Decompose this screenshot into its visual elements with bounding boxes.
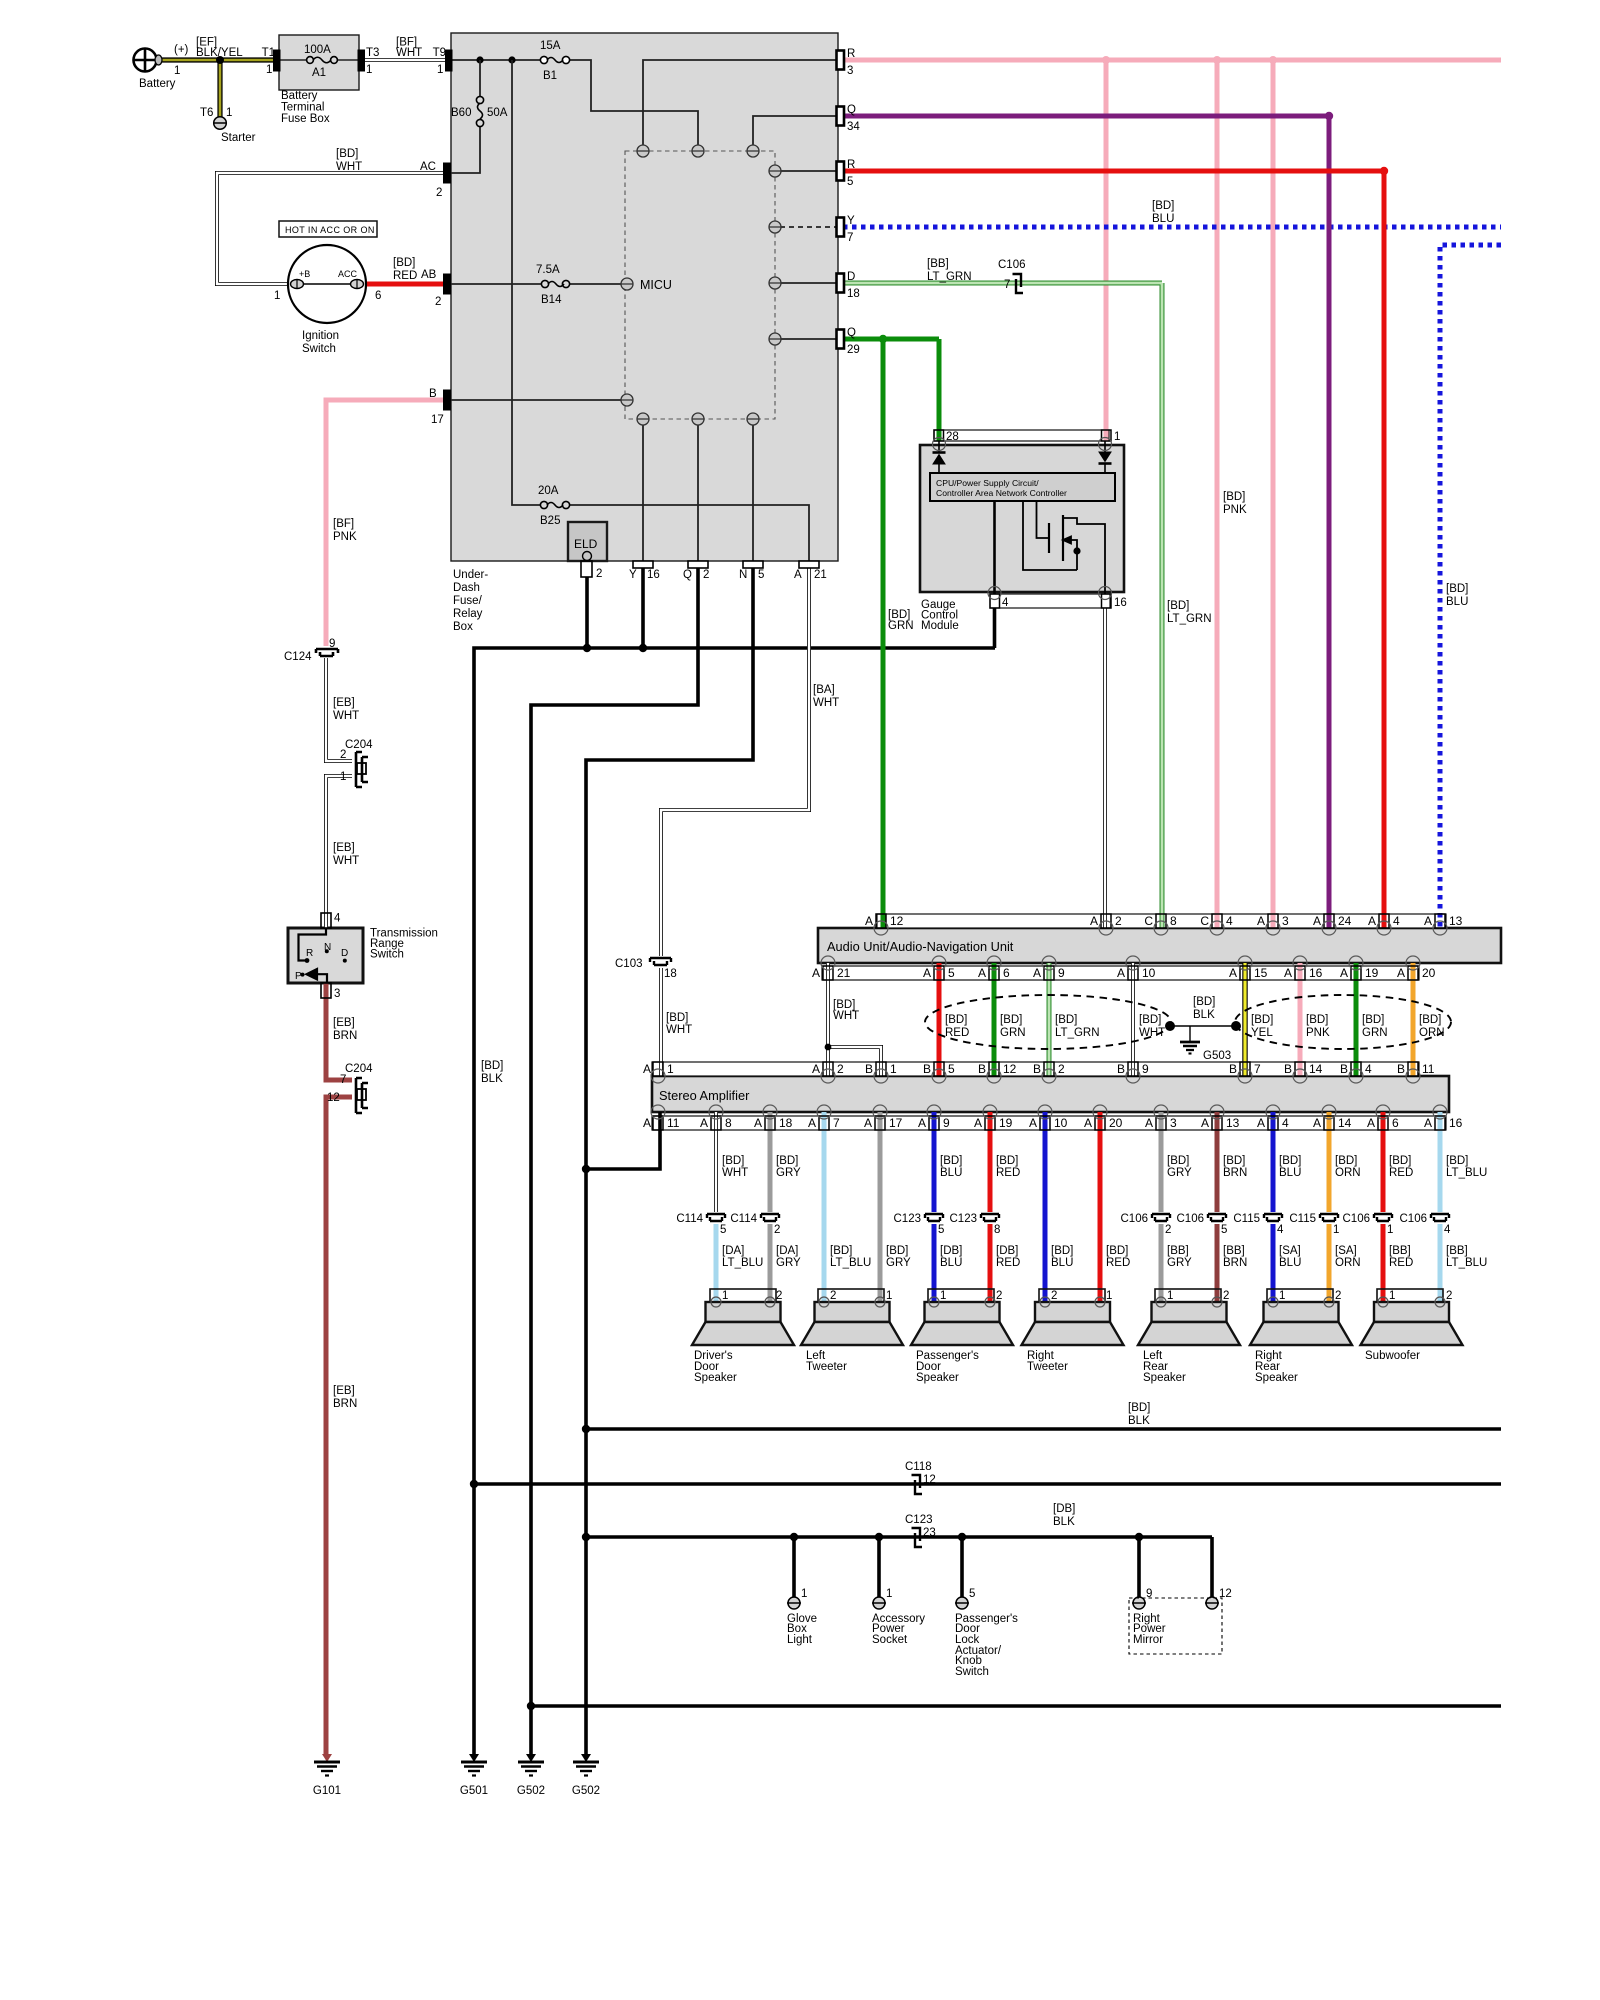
svg-text:B: B — [865, 1062, 873, 1076]
junction white branch — [825, 1044, 832, 1051]
fusebox internal: B25 20A branch down — [512, 60, 541, 505]
svg-text:9: 9 — [1146, 1588, 1152, 1600]
svg-text:T9: T9 — [433, 47, 446, 59]
connector C204 lower — [356, 1078, 368, 1113]
svg-text:5: 5 — [948, 1062, 955, 1076]
connector Q2 box — [688, 561, 708, 568]
svg-text:Stereo Amplifier: Stereo Amplifier — [659, 1088, 750, 1103]
svg-text:C106: C106 — [1177, 1213, 1205, 1225]
accessory power socket pin — [872, 1597, 886, 1609]
svg-text:10: 10 — [1054, 1116, 1068, 1130]
svg-text:ACC: ACC — [338, 269, 358, 279]
svg-text:4: 4 — [1226, 914, 1233, 928]
svg-text:G503: G503 — [1203, 1050, 1231, 1062]
fusebox internal: MICU pin3 up and right to Q34 — [753, 116, 838, 146]
junction bus4 — [527, 1702, 535, 1710]
svg-text:[BA]: [BA] — [813, 684, 835, 696]
junction ELD rail — [583, 644, 591, 652]
svg-text:ORN: ORN — [1419, 1027, 1445, 1039]
svg-text:[BD]: [BD] — [1223, 491, 1245, 503]
wire C106 to subwoofer [BB] LT_BLU — [1438, 1224, 1443, 1302]
svg-text:[BD]: [BD] — [722, 1155, 744, 1167]
svg-text:19: 19 — [1365, 966, 1379, 980]
svg-text:Socket: Socket — [872, 1634, 908, 1646]
svg-text:C106: C106 — [1121, 1213, 1149, 1225]
wire blue dotted stepped to audio A13 — [1440, 245, 1501, 928]
svg-text:Audio Unit/Audio-Navigation Un: Audio Unit/Audio-Navigation Unit — [827, 939, 1014, 954]
svg-text:Light: Light — [787, 1634, 813, 1646]
inline connector C115-4 — [1264, 1214, 1282, 1221]
svg-text:BLK: BLK — [1128, 1415, 1150, 1427]
svg-text:A: A — [794, 569, 802, 581]
passenger's door speaker — [911, 1289, 1013, 1345]
svg-text:BLK: BLK — [1053, 1516, 1075, 1528]
svg-text:4: 4 — [1393, 914, 1400, 928]
svg-text:9: 9 — [943, 1116, 950, 1130]
wire bottom bus 2 — [474, 1482, 1501, 1486]
svg-text:A: A — [978, 966, 986, 980]
connector Y16 box — [633, 561, 653, 568]
svg-text:Module: Module — [921, 620, 959, 632]
svg-text:GRY: GRY — [1167, 1257, 1192, 1269]
wire gauge pin4 black to y648 rail — [993, 608, 997, 648]
svg-text:B: B — [429, 388, 437, 400]
subwoofer — [1361, 1289, 1463, 1345]
svg-text:21: 21 — [814, 569, 827, 581]
wire drop glove box light — [792, 1537, 796, 1597]
svg-text:B1: B1 — [543, 70, 557, 82]
svg-text:[EB]: [EB] — [333, 1385, 355, 1397]
connector T3 — [358, 50, 365, 71]
svg-text:12: 12 — [890, 914, 904, 928]
svg-text:BRN: BRN — [333, 1030, 357, 1042]
wire amp A16 [BD] LT_BLU to C106 — [1438, 1112, 1443, 1212]
svg-text:5: 5 — [758, 569, 764, 581]
wire C124 to C204 [EB] WHT — [326, 658, 352, 761]
svg-text:N: N — [324, 942, 331, 953]
svg-text:C114: C114 — [730, 1213, 757, 1225]
wire drop mirror pin12 — [1210, 1537, 1214, 1597]
svg-text:2: 2 — [776, 1290, 782, 1302]
fusebox internal: MICU bottom pins down to Y16 Q2 N5 — [643, 425, 753, 561]
wire T6 branch to starter — [217, 60, 222, 117]
svg-text:16: 16 — [1114, 597, 1127, 609]
svg-text:B: B — [1033, 1062, 1041, 1076]
svg-text:12: 12 — [327, 1092, 340, 1104]
svg-text:WHT: WHT — [1139, 1027, 1165, 1039]
svg-text:A: A — [643, 1116, 651, 1130]
svg-text:14: 14 — [1338, 1116, 1352, 1130]
svg-text:[DA]: [DA] — [722, 1245, 744, 1257]
shield junction right — [1231, 1021, 1241, 1031]
ground G502 left — [518, 1754, 544, 1776]
connector Y7 — [837, 218, 845, 237]
svg-text:B: B — [978, 1062, 986, 1076]
svg-text:23: 23 — [923, 1527, 936, 1539]
connector C123-23 — [912, 1528, 923, 1547]
svg-text:A: A — [974, 1116, 982, 1130]
junction pink taps — [1102, 56, 1110, 64]
svg-text:LT_BLU: LT_BLU — [1446, 1257, 1487, 1269]
svg-text:B25: B25 — [540, 515, 560, 527]
svg-text:A: A — [864, 1116, 872, 1130]
svg-text:A: A — [1340, 966, 1348, 980]
wire audio A20 to amp B11 [BD] ORN — [1411, 963, 1416, 1076]
svg-text:1: 1 — [667, 1062, 674, 1076]
svg-text:5: 5 — [1221, 1224, 1227, 1236]
svg-text:A: A — [1367, 1116, 1375, 1130]
wire A21 white [BA] WHT — [661, 568, 809, 956]
fuse B60 50A vertical — [476, 96, 483, 126]
right tweeter — [1022, 1289, 1124, 1345]
svg-text:Speaker: Speaker — [916, 1372, 959, 1384]
svg-text:Fuse/: Fuse/ — [453, 595, 483, 607]
ground G502 right — [573, 1754, 599, 1776]
svg-text:4: 4 — [1002, 597, 1009, 609]
svg-text:20: 20 — [1109, 1116, 1123, 1130]
connector C204 upper — [356, 752, 368, 787]
svg-text:GRY: GRY — [886, 1257, 911, 1269]
svg-text:A: A — [1313, 1116, 1321, 1130]
svg-text:C: C — [1144, 914, 1153, 928]
svg-text:[DB]: [DB] — [1053, 1503, 1075, 1515]
labels amp bottom pins — [643, 1116, 1463, 1130]
wire black rail y648 ELD Y16 to G501 drop — [474, 648, 995, 1754]
connector C118-12 — [912, 1475, 923, 1494]
svg-text:2: 2 — [1058, 1062, 1065, 1076]
ELD box — [568, 522, 607, 561]
battery positive symbol — [134, 49, 163, 72]
svg-text:Subwoofer: Subwoofer — [1365, 1350, 1420, 1362]
svg-text:RED: RED — [1389, 1257, 1413, 1269]
wire TRS pin3 to C204 [EB] BRN — [326, 983, 352, 1080]
svg-text:[BD]: [BD] — [1446, 583, 1468, 595]
wire Y16 drop — [641, 568, 645, 648]
svg-text:1: 1 — [886, 1588, 892, 1600]
svg-text:13: 13 — [1449, 914, 1463, 928]
svg-text:A: A — [812, 1062, 820, 1076]
ground G503 — [1180, 1042, 1200, 1054]
audio unit pin cells bottom — [823, 966, 1418, 980]
junction green — [879, 335, 887, 343]
svg-text:Switch: Switch — [302, 343, 336, 355]
gauge bottom pin strip — [990, 594, 1110, 608]
svg-text:2: 2 — [596, 568, 602, 580]
svg-text:[BD]: [BD] — [830, 1245, 852, 1257]
svg-text:+B: +B — [299, 269, 310, 279]
wire T3 to T9 [BF] WHT — [364, 58, 446, 62]
svg-text:1: 1 — [1114, 431, 1120, 443]
junction bus3 — [582, 1533, 590, 1541]
svg-text:BLU: BLU — [1152, 213, 1174, 225]
connector N5 box — [743, 561, 763, 568]
svg-text:GRY: GRY — [776, 1167, 801, 1179]
svg-text:BRN: BRN — [1223, 1257, 1247, 1269]
svg-text:WHT: WHT — [396, 47, 422, 59]
svg-text:T1: T1 — [262, 47, 275, 59]
wire amp A14 [BD] ORN to C115 — [1327, 1112, 1332, 1212]
labels amp top pins — [643, 1062, 1435, 1076]
svg-text:GRN: GRN — [1362, 1027, 1388, 1039]
gauge pin16 cell — [1102, 594, 1112, 608]
svg-text:C103: C103 — [615, 958, 643, 970]
svg-text:Switch: Switch — [370, 949, 404, 961]
svg-text:18: 18 — [847, 288, 860, 300]
svg-text:B: B — [1340, 1062, 1348, 1076]
svg-text:A: A — [1257, 914, 1265, 928]
svg-text:4: 4 — [1277, 1224, 1284, 1236]
gauge pin4 cell — [990, 594, 1000, 608]
svg-text:A: A — [1201, 1116, 1209, 1130]
svg-text:[BD]: [BD] — [481, 1060, 503, 1072]
svg-text:C124: C124 — [284, 651, 312, 663]
junction dots device drops — [790, 1533, 798, 1541]
svg-text:BLK: BLK — [481, 1073, 503, 1085]
svg-text:12: 12 — [923, 1474, 936, 1486]
svg-text:4: 4 — [1282, 1116, 1289, 1130]
svg-text:R: R — [306, 948, 313, 959]
svg-text:A: A — [1117, 966, 1125, 980]
svg-text:A: A — [1313, 914, 1321, 928]
gauge pin1 cell — [1102, 430, 1112, 441]
svg-text:3: 3 — [334, 988, 340, 1000]
svg-text:Terminal: Terminal — [281, 102, 324, 114]
svg-text:Switch: Switch — [955, 1666, 989, 1678]
inline connector C106-5 — [1208, 1214, 1226, 1221]
svg-text:[BD]: [BD] — [886, 1245, 908, 1257]
svg-text:A: A — [1145, 1116, 1153, 1130]
svg-text:[BF]: [BF] — [333, 518, 354, 530]
svg-text:50A: 50A — [487, 107, 508, 119]
wire C114 to speaker [DA] GRY — [768, 1224, 773, 1302]
starter pin — [213, 117, 227, 130]
svg-text:BRN: BRN — [1223, 1167, 1247, 1179]
wire C204 to G101 [EB] BRN — [326, 1097, 352, 1754]
junction bus1 — [582, 1425, 590, 1433]
right rear speaker — [1250, 1289, 1352, 1345]
svg-text:15: 15 — [1254, 966, 1268, 980]
wire A1 fuse internal — [280, 59, 358, 61]
wire amp A17 to left tweeter [BD] GRY — [878, 1112, 883, 1302]
wire Q2 to G502 — [531, 568, 698, 1754]
svg-text:BRN: BRN — [333, 1398, 357, 1410]
svg-text:[EB]: [EB] — [333, 842, 355, 854]
inline connector C106-4 — [1431, 1214, 1449, 1221]
TRS internal selector — [299, 928, 347, 983]
wire pink vertical to audio C4 — [1215, 60, 1220, 928]
battery terminal fuse box A1 — [279, 35, 359, 90]
wire bottom bus 4 — [531, 1704, 1501, 1708]
connector A21 box — [799, 561, 819, 568]
MICU pin circles — [621, 145, 781, 425]
svg-text:[BD]: [BD] — [1362, 1014, 1384, 1026]
wire amp A11 ground branch — [586, 1112, 660, 1169]
svg-text:G101: G101 — [313, 1785, 341, 1797]
svg-text:A1: A1 — [312, 67, 326, 79]
wire purple Q34 to audio A24 — [843, 116, 1329, 928]
svg-text:PNK: PNK — [333, 531, 357, 543]
svg-text:[BD]: [BD] — [336, 148, 358, 160]
wire C123 to speaker [DB] BLU — [932, 1224, 937, 1302]
svg-text:9: 9 — [1142, 1062, 1149, 1076]
wire amp A7 to left tweeter [BD] LT_BLU — [822, 1112, 827, 1302]
svg-text:C114: C114 — [676, 1213, 703, 1225]
svg-text:12: 12 — [1003, 1062, 1017, 1076]
wire drop mirror pin9 — [1137, 1537, 1141, 1597]
stereo amplifier bar — [652, 1076, 1449, 1112]
wire amp A3 [BD] GRY to C106 — [1159, 1112, 1164, 1212]
svg-text:[BD]: [BD] — [1128, 1402, 1150, 1414]
svg-text:PNK: PNK — [1306, 1027, 1330, 1039]
svg-text:34: 34 — [847, 121, 860, 133]
svg-text:R: R — [847, 48, 855, 60]
svg-text:A: A — [1284, 966, 1292, 980]
svg-text:7: 7 — [833, 1116, 840, 1130]
svg-text:19: 19 — [999, 1116, 1013, 1130]
fuse 100A A1 — [307, 57, 338, 64]
connector C103 — [650, 958, 671, 965]
fusebox internal: MICU right pin to R5 — [780, 170, 838, 172]
svg-text:Q: Q — [847, 104, 856, 116]
wire light green D18 to C106 to down [BB] LT_GRN — [843, 283, 1162, 928]
svg-text:17: 17 — [889, 1116, 903, 1130]
MICU dashed outline — [625, 151, 775, 419]
wire audio A15 to amp B7 [BD] YEL — [1242, 963, 1247, 1076]
svg-text:[BD]: [BD] — [1389, 1155, 1411, 1167]
svg-text:2: 2 — [837, 1062, 844, 1076]
svg-text:RED: RED — [996, 1257, 1020, 1269]
svg-text:5: 5 — [969, 1588, 975, 1600]
svg-text:2: 2 — [1165, 1224, 1171, 1236]
inline connector C114-2 — [761, 1214, 779, 1221]
svg-text:2: 2 — [703, 569, 709, 581]
glove box light pin — [787, 1597, 801, 1609]
wire amp A4 [BD] BLU to C115 — [1271, 1112, 1276, 1212]
svg-text:1: 1 — [340, 771, 346, 783]
svg-text:LT_GRN: LT_GRN — [927, 271, 972, 283]
inline connector C123-8 — [981, 1214, 999, 1221]
svg-text:[BD]: [BD] — [1419, 1014, 1441, 1026]
svg-text:Y: Y — [847, 215, 855, 227]
junction Y16 rail — [639, 644, 647, 652]
svg-text:ORN: ORN — [1335, 1167, 1361, 1179]
svg-text:RED: RED — [1389, 1167, 1413, 1179]
fuse 20A B25 — [540, 501, 569, 508]
connector C106-7 on ltgrn wire — [1013, 274, 1024, 293]
svg-text:14: 14 — [1309, 1062, 1323, 1076]
svg-text:7.5A: 7.5A — [536, 264, 560, 276]
fuse 15A B1 — [540, 56, 569, 63]
svg-text:11: 11 — [667, 1116, 680, 1130]
svg-text:1: 1 — [174, 65, 180, 77]
svg-text:ELD: ELD — [574, 537, 598, 551]
svg-text:9: 9 — [1058, 966, 1065, 980]
svg-text:Speaker: Speaker — [1143, 1372, 1186, 1384]
svg-text:C106: C106 — [1343, 1213, 1371, 1225]
svg-text:[BD]: [BD] — [393, 257, 415, 269]
svg-text:A: A — [918, 1116, 926, 1130]
wire amp A8 [BD] WHT to C114 — [714, 1112, 718, 1212]
svg-text:1: 1 — [886, 1290, 892, 1302]
svg-text:C123: C123 — [894, 1213, 922, 1225]
svg-text:6: 6 — [1003, 966, 1010, 980]
wire audio A9 to amp B2 [BD] LT_GRN — [1047, 963, 1052, 1076]
transmission range switch box — [288, 928, 363, 983]
svg-text:Speaker: Speaker — [1255, 1372, 1298, 1384]
svg-text:[BD]: [BD] — [1251, 1014, 1273, 1026]
svg-text:[BB]: [BB] — [927, 258, 949, 270]
svg-text:LT_BLU: LT_BLU — [1446, 1167, 1487, 1179]
wire amp A20 to right tweeter [BD] RED — [1098, 1112, 1103, 1302]
svg-text:GRN: GRN — [1000, 1027, 1026, 1039]
TRS pin4 box — [321, 913, 331, 928]
svg-text:WHT: WHT — [833, 1010, 859, 1022]
svg-text:WHT: WHT — [666, 1024, 692, 1036]
wire C106 to speaker [BB] BRN — [1215, 1224, 1220, 1302]
svg-text:BLU: BLU — [1279, 1167, 1301, 1179]
svg-text:Speaker: Speaker — [694, 1372, 737, 1384]
svg-text:18: 18 — [779, 1116, 793, 1130]
amp top pin strip — [652, 1062, 1419, 1076]
svg-text:RED: RED — [945, 1027, 969, 1039]
wire ignition white loop AC to +B [BD] WHT — [217, 173, 446, 284]
svg-text:RED: RED — [393, 270, 417, 282]
svg-text:Q: Q — [847, 327, 856, 339]
connector B — [444, 390, 451, 410]
svg-text:[BD]: [BD] — [666, 1012, 688, 1024]
svg-text:2: 2 — [1223, 1290, 1229, 1302]
wire battery to T1 [EF] BLK/YEL — [156, 57, 274, 62]
fusebox internal: B17 to MICU lower left pin — [451, 399, 621, 401]
svg-text:B: B — [1229, 1062, 1237, 1076]
amp bottom pin strip — [652, 1116, 1446, 1130]
svg-text:16: 16 — [1309, 966, 1323, 980]
twisted pair ellipse right — [1235, 995, 1451, 1049]
svg-text:A: A — [643, 1062, 651, 1076]
svg-text:WHT: WHT — [333, 710, 359, 722]
svg-text:[BD]: [BD] — [1223, 1155, 1245, 1167]
svg-text:Box: Box — [453, 621, 473, 633]
svg-text:B: B — [1284, 1062, 1292, 1076]
svg-text:AB: AB — [421, 269, 437, 281]
ignition ACC terminal — [351, 279, 364, 289]
wire audio A6 to amp B12 [BD] GRN — [992, 963, 997, 1076]
left rear speaker — [1138, 1289, 1240, 1345]
svg-text:BLU: BLU — [1279, 1257, 1301, 1269]
fusebox internal: MICU right pin to Y7 dashed — [780, 226, 838, 228]
svg-text:8: 8 — [725, 1116, 732, 1130]
svg-text:[BD]: [BD] — [1106, 1245, 1128, 1257]
svg-text:[DB]: [DB] — [940, 1245, 962, 1257]
audio unit bar — [818, 928, 1501, 963]
svg-text:G502: G502 — [572, 1785, 600, 1797]
svg-text:WHT: WHT — [722, 1167, 748, 1179]
junction starter branch — [216, 56, 224, 64]
svg-text:[BD]: [BD] — [1000, 1014, 1022, 1026]
svg-text:C115: C115 — [1233, 1213, 1260, 1225]
svg-text:C123: C123 — [950, 1213, 978, 1225]
svg-text:A: A — [700, 1116, 708, 1130]
ELD sensor circle — [583, 552, 592, 561]
svg-text:MICU: MICU — [640, 278, 672, 292]
svg-text:[BD]: [BD] — [940, 1155, 962, 1167]
svg-text:7: 7 — [1254, 1062, 1261, 1076]
svg-text:A: A — [1257, 1116, 1265, 1130]
svg-text:C106: C106 — [998, 259, 1026, 271]
svg-text:20: 20 — [1422, 966, 1436, 980]
junction purple — [1325, 112, 1333, 120]
svg-text:C204: C204 — [345, 739, 373, 751]
